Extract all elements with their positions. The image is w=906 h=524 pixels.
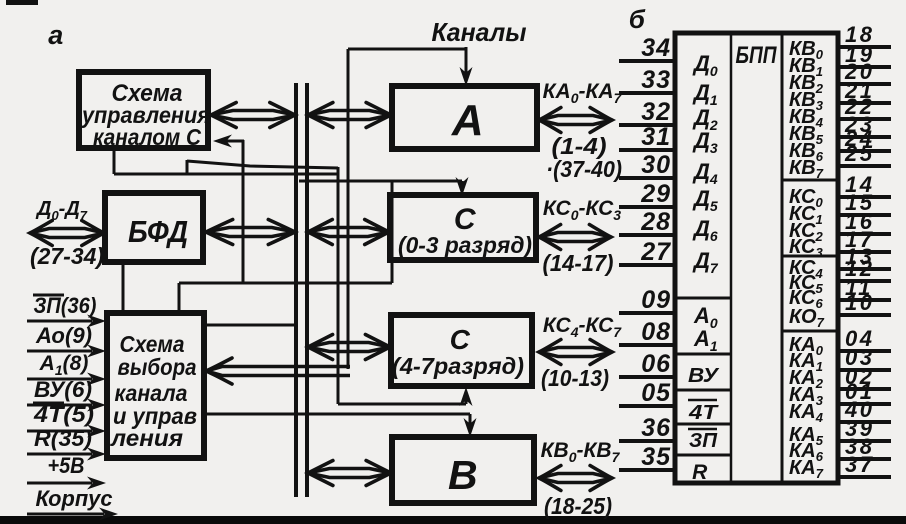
svg-text:КВ0-КВ7: КВ0-КВ7 <box>541 439 621 465</box>
svg-text:35: 35 <box>641 443 671 471</box>
svg-text:(10-13): (10-13) <box>541 365 609 391</box>
svg-text:4Т: 4Т <box>688 402 719 424</box>
svg-text:А1(8): А1(8) <box>39 352 89 378</box>
svg-text:(18-25): (18-25) <box>544 493 612 519</box>
svg-text:27: 27 <box>640 238 671 266</box>
svg-text:37: 37 <box>845 452 874 477</box>
svg-text:КС4-КС7: КС4-КС7 <box>543 314 622 340</box>
svg-text:25: 25 <box>844 141 874 166</box>
svg-text:ЗП(36): ЗП(36) <box>34 293 97 318</box>
svg-text:4Т(5): 4Т(5) <box>33 402 94 427</box>
svg-text:В: В <box>448 452 478 498</box>
svg-text:32: 32 <box>641 98 671 126</box>
svg-text:·(37-40): ·(37-40) <box>546 156 622 182</box>
svg-text:33: 33 <box>641 66 671 94</box>
svg-text:ления: ления <box>110 425 184 451</box>
svg-text:б: б <box>629 4 646 34</box>
svg-text:09: 09 <box>641 286 671 314</box>
svg-text:05: 05 <box>641 379 671 407</box>
svg-text:С: С <box>450 324 471 355</box>
svg-text:(4-7разряд): (4-7разряд) <box>392 353 524 379</box>
svg-text:БПП: БПП <box>736 42 778 69</box>
svg-text:+5В: +5В <box>48 453 85 478</box>
svg-text:каналом С: каналом С <box>93 124 201 150</box>
svg-text:R: R <box>692 461 708 484</box>
svg-text:а: а <box>48 20 64 50</box>
svg-text:30: 30 <box>641 151 671 179</box>
svg-text:36: 36 <box>641 414 671 442</box>
svg-text:Каналы: Каналы <box>432 17 527 47</box>
svg-text:R(35): R(35) <box>34 426 92 451</box>
svg-text:29: 29 <box>640 180 671 208</box>
svg-text:06: 06 <box>641 350 671 378</box>
svg-text:(27-34): (27-34) <box>30 243 104 269</box>
svg-text:Ао(9): Ао(9) <box>35 323 92 348</box>
svg-text:31: 31 <box>641 123 671 151</box>
svg-text:выбора: выбора <box>118 354 197 380</box>
svg-text:Корпус: Корпус <box>36 486 113 511</box>
svg-text:28: 28 <box>640 208 671 236</box>
svg-text:БФД: БФД <box>128 214 188 249</box>
svg-text:34: 34 <box>641 34 671 62</box>
svg-text:(0-3 разряд): (0-3 разряд) <box>398 232 532 258</box>
svg-text:КА0-КА7: КА0-КА7 <box>543 80 623 106</box>
svg-text:ВУ(6): ВУ(6) <box>34 377 92 402</box>
svg-text:А: А <box>451 96 484 145</box>
svg-text:(14-17): (14-17) <box>543 250 614 276</box>
svg-text:ВУ: ВУ <box>688 365 720 387</box>
svg-text:КС0-КС3: КС0-КС3 <box>543 197 621 223</box>
svg-text:08: 08 <box>641 318 671 346</box>
svg-text:10: 10 <box>845 290 874 315</box>
svg-text:ЗП: ЗП <box>689 430 718 452</box>
